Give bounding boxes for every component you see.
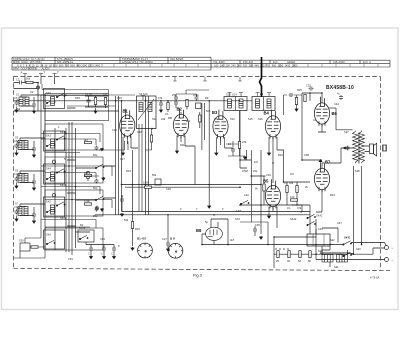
node aerial terminal T2	[53, 74, 57, 79]
svg-text:S22: S22	[330, 238, 335, 242]
wire long HT bus	[95, 212, 310, 215]
svg-text:5k: 5k	[255, 187, 258, 191]
svg-text:1M: 1M	[254, 160, 258, 164]
resistor left r3 cluster	[85, 203, 92, 205]
svg-text:SK8: SK8	[236, 209, 241, 213]
svg-text:C: C	[111, 252, 113, 256]
svg-text:50k: 50k	[124, 218, 129, 222]
wire can T4 top stubs	[256, 93, 272, 97]
svg-text:R24: R24	[330, 193, 335, 197]
svg-text:5p: 5p	[205, 220, 208, 224]
ground far-left row4	[15, 218, 18, 221]
wire r3 leads	[85, 96, 108, 110]
svg-text:25: 25	[276, 259, 279, 263]
wire main grid line	[30, 100, 252, 102]
svg-text:B7: B7	[325, 160, 331, 165]
wire B6 anode to B7	[329, 107, 336, 109]
node border stub a	[173, 77, 176, 81]
svg-text:22k: 22k	[242, 140, 247, 144]
node B2 top components	[174, 101, 178, 106]
svg-text:C63: C63	[100, 237, 105, 241]
capacitor C20	[159, 102, 163, 107]
resistor R32 on bus	[299, 251, 301, 258]
resistor R22	[291, 199, 298, 201]
transformer T5 output primary	[353, 131, 365, 164]
transformer T6 mains winding a	[322, 255, 333, 263]
svg-text:S30: S30	[19, 239, 24, 243]
wire row3 links	[20, 171, 116, 200]
svg-text:2k2: 2k2	[186, 119, 191, 123]
ground row3	[33, 187, 36, 190]
svg-text:49m BAND: 49m BAND	[170, 57, 183, 61]
ground B2 cathode	[176, 150, 179, 153]
svg-text:C33: C33	[266, 173, 271, 177]
svg-text:47k: 47k	[297, 206, 302, 210]
node small box S11	[196, 103, 202, 109]
wire AVC bus left	[14, 89, 120, 112]
wire arrow into transformer	[341, 148, 353, 163]
svg-text:50p: 50p	[206, 109, 211, 113]
node border stub b	[203, 77, 206, 81]
svg-text:80: 80	[308, 259, 311, 263]
capacitor C25	[120, 198, 124, 203]
node volume control box	[155, 179, 161, 185]
svg-text:4u: 4u	[337, 92, 340, 96]
svg-text:82p: 82p	[93, 153, 98, 157]
svg-text:C46: C46	[318, 227, 323, 231]
svg-text:R19: R19	[278, 153, 283, 157]
wire chassis dash-dot border left	[13, 77, 15, 269]
ground C35	[260, 236, 263, 239]
svg-text:B8: B8	[196, 228, 202, 233]
svg-text:B1–B7: B1–B7	[137, 237, 147, 241]
node wafer pivot row2	[52, 160, 55, 163]
capacitor far-left row4	[15, 210, 19, 215]
switch SK41 lower	[343, 252, 352, 256]
ground C20	[160, 109, 163, 112]
resistor R4	[104, 98, 106, 105]
wire B5 area verticals	[240, 111, 284, 235]
svg-text:B6: B6	[332, 111, 338, 116]
wire mid stubs	[167, 215, 169, 248]
wire bottom feed bus	[202, 219, 385, 268]
ground C61	[103, 256, 106, 259]
svg-text:∼: ∼	[391, 258, 394, 262]
svg-text:2: 2	[222, 207, 224, 211]
capacitor C7 row2	[32, 147, 36, 152]
svg-text:C38: C38	[304, 153, 309, 157]
ground left r3	[101, 208, 104, 211]
node power rectangle box	[307, 234, 330, 246]
svg-text:50k: 50k	[152, 173, 157, 177]
svg-text:C15: C15	[117, 96, 122, 100]
svg-text:C1: C1	[16, 78, 20, 82]
svg-text:S9 S10: S9 S10	[139, 92, 148, 96]
switch SK3b	[95, 196, 104, 200]
svg-text:R9: R9	[205, 96, 209, 100]
capacitor left r2 cluster	[95, 179, 99, 184]
tube B2	[173, 108, 188, 138]
socket diagram B8	[168, 243, 183, 258]
svg-text:50: 50	[298, 259, 301, 263]
svg-text:S3: S3	[15, 136, 19, 140]
capacitor C35	[253, 228, 257, 233]
ground C25	[121, 213, 124, 216]
node field coil connector	[383, 145, 387, 151]
svg-text:S6: S6	[17, 173, 21, 177]
tube B6	[314, 97, 329, 127]
svg-text:C: C	[101, 252, 103, 256]
svg-text:0.1: 0.1	[287, 206, 291, 210]
svg-text:S20: S20	[318, 249, 323, 253]
svg-text:SK5: SK5	[46, 200, 51, 204]
svg-text:SK2: SK2	[46, 91, 51, 95]
wire B2 pins	[177, 136, 195, 185]
switch SK4a box	[44, 197, 65, 217]
wire transformer down leads	[354, 166, 362, 254]
svg-text:∼: ∼	[391, 246, 394, 250]
wire AF double line	[122, 185, 262, 188]
svg-text:T: T	[44, 71, 46, 75]
svg-text:100p: 100p	[193, 93, 199, 97]
svg-text:C26: C26	[166, 187, 171, 191]
node aerial terminal T	[23, 74, 27, 79]
wire row2 links	[20, 138, 116, 168]
wire chassis dash-dot border top	[14, 76, 381, 78]
resistor R31 on bus	[288, 251, 290, 258]
svg-text:SK41: SK41	[344, 236, 351, 240]
resistor R3	[94, 98, 96, 105]
wire row4 links	[20, 204, 90, 232]
resistor R18	[296, 186, 298, 193]
resistor R7 row2	[87, 172, 89, 179]
node wafer pivot row3	[52, 193, 55, 196]
svg-text:4k7: 4k7	[230, 238, 235, 242]
ground left r2	[102, 177, 105, 180]
svg-text:S2: S2	[17, 107, 21, 111]
wire sk40 caps feed	[86, 242, 114, 256]
svg-text:R2: R2	[80, 223, 84, 227]
svg-text:S23: S23	[356, 247, 361, 251]
node band section outer box 3	[45, 157, 103, 183]
svg-text:S11: S11	[152, 117, 157, 121]
switch SK8	[240, 200, 249, 204]
wire tuning pointer	[260, 57, 262, 97]
capacitor C31	[339, 95, 343, 100]
wire B7 cathode chain	[292, 160, 323, 212]
resistor R30 on bus	[277, 251, 279, 258]
svg-text:C18: C18	[137, 130, 142, 134]
coil S3 block row2	[18, 141, 22, 150]
wire B6 top leads	[302, 93, 353, 160]
ground left r1	[101, 148, 104, 151]
wire mid bus lines	[116, 96, 149, 246]
svg-text:0.1 30k: 0.1 30k	[284, 181, 294, 185]
node band section outer box 5	[45, 228, 103, 250]
node bottom-left mini block	[20, 243, 30, 251]
resistor R16	[263, 184, 265, 191]
svg-text:R15: R15	[135, 227, 140, 231]
tube B3	[213, 110, 228, 140]
svg-text:SK4: SK4	[46, 167, 51, 171]
node header scale row ticks	[18, 64, 378, 67]
svg-text:S4: S4	[17, 140, 21, 144]
svg-text:C24: C24	[226, 142, 231, 146]
tube B4	[265, 110, 280, 140]
coil S7 block row4	[18, 207, 22, 216]
wire B7 anode	[322, 163, 341, 168]
svg-text:1: 1	[58, 125, 60, 129]
svg-text:25p: 25p	[93, 214, 98, 218]
capacitor far-left row2	[15, 144, 19, 149]
IF transformer can T2	[137, 96, 157, 129]
resistor B6 input	[295, 98, 297, 105]
svg-text:C5: C5	[14, 96, 18, 100]
svg-text:SK5: SK5	[75, 96, 80, 100]
svg-text:10k: 10k	[214, 117, 219, 121]
node border stub c	[238, 77, 241, 81]
switch wafer box1 second contact	[56, 93, 65, 97]
svg-text:150: 150	[290, 195, 295, 199]
resistor R17	[286, 186, 288, 193]
svg-text:SK42: SK42	[290, 217, 297, 221]
ground C27	[167, 248, 170, 251]
switch wafer box2 second contact	[56, 136, 65, 140]
ground far-left row1	[15, 109, 18, 112]
ground C62	[113, 256, 116, 259]
svg-text:C16: C16	[112, 128, 117, 132]
svg-text:4-79 SA: 4-79 SA	[370, 276, 380, 280]
ground R12	[208, 205, 211, 208]
resistor R12	[199, 115, 201, 122]
svg-text:25p: 25p	[253, 169, 258, 173]
capacitor B6 input	[289, 93, 294, 97]
capacitor C61	[102, 247, 106, 252]
ground row1	[33, 110, 36, 113]
svg-text:C17: C17	[120, 157, 125, 161]
wire B8 leads	[202, 219, 228, 245]
node band section outer box 4	[45, 190, 103, 216]
capacitor C27	[166, 242, 170, 247]
ground B3 cathode	[215, 152, 218, 155]
svg-text:SK4b: SK4b	[60, 216, 67, 220]
svg-text:B4: B4	[264, 111, 270, 116]
svg-text:3: 3	[180, 207, 182, 211]
svg-text:SK6: SK6	[46, 233, 51, 237]
capacitor left r1 cluster	[95, 146, 99, 151]
svg-text:BX458B-10: BX458B-10	[326, 85, 354, 91]
switch SK41 upper	[343, 241, 352, 245]
svg-text:R25: R25	[297, 88, 302, 92]
node band section outer box 2	[45, 124, 103, 150]
node band section outer box 1	[45, 94, 109, 121]
svg-text:SK1b: SK1b	[60, 130, 67, 134]
svg-text:S13: S13	[230, 117, 235, 121]
node T6 core lines	[320, 252, 350, 253]
svg-text:415–1620: 415–1620	[333, 60, 345, 64]
wire B5 aux links	[240, 205, 268, 245]
resistor R8	[150, 135, 152, 142]
svg-text:S1: S1	[16, 93, 20, 97]
capacitor C13 row4	[32, 213, 36, 218]
svg-text:0.5M: 0.5M	[242, 169, 248, 173]
svg-text:8: 8	[118, 244, 120, 248]
svg-text:A: A	[21, 71, 23, 75]
switch SK6 wafer box	[44, 230, 65, 249]
coil S1 block row1	[19, 97, 23, 106]
svg-text:SK42: SK42	[316, 214, 323, 218]
capacitor C40 at B7 anode	[346, 146, 350, 151]
ground row2	[33, 154, 36, 157]
ground under R3	[94, 110, 97, 113]
svg-text:S16: S16	[258, 117, 263, 121]
node aux dot	[267, 244, 269, 246]
switch SK42	[307, 214, 316, 218]
svg-text:MIDD. GOLF 187–578m: MIDD. GOLF 187–578m	[13, 60, 42, 64]
capacitor C4	[87, 99, 91, 104]
wire box1 feed	[42, 84, 109, 94]
resistor R33 on bus	[309, 251, 311, 258]
svg-text:50p: 50p	[93, 186, 98, 190]
node B3 B4 mid components	[231, 148, 235, 153]
svg-text:C44: C44	[334, 102, 339, 106]
speaker LS	[370, 143, 377, 156]
switch SK3a box	[44, 164, 65, 184]
node terminal above T2	[141, 96, 145, 101]
svg-text:C3: C3	[30, 90, 34, 94]
svg-text:S17: S17	[344, 130, 349, 134]
wire far-left stubs	[14, 100, 46, 258]
coil wafer box3 interior	[51, 172, 55, 181]
svg-text:LANGE GOLF 722–2000m: LANGE GOLF 722–2000m	[122, 60, 153, 64]
wire B5 pins	[269, 207, 277, 228]
svg-text:7: 7	[196, 207, 198, 211]
svg-text:R11: R11	[180, 143, 185, 147]
wire T6 leads	[322, 228, 348, 267]
resistor R15	[131, 222, 133, 229]
svg-text:C64: C64	[68, 257, 73, 261]
capacitor far-left row1	[15, 101, 19, 106]
node B2 right verticals	[202, 101, 209, 205]
svg-text:S5: S5	[15, 169, 19, 173]
svg-text:470k: 470k	[84, 199, 90, 203]
svg-text:C35: C35	[255, 223, 260, 227]
wire row1 links	[21, 95, 76, 110]
coil wafer box4 interior	[51, 205, 55, 214]
capacitor C11 row3	[95, 206, 99, 211]
switch SK1a box	[44, 89, 65, 109]
svg-text:4k7: 4k7	[84, 138, 89, 142]
capacitor C30	[309, 87, 314, 91]
ground row4	[33, 220, 36, 223]
svg-text:S13 S14: S13 S14	[226, 93, 237, 97]
resistor R14	[145, 186, 152, 188]
wire can T3 top stubs	[228, 93, 244, 97]
capacitor C1	[18, 81, 23, 85]
wire power verticals	[310, 205, 354, 255]
svg-text:1M: 1M	[290, 172, 294, 176]
capacitor C2 row1	[32, 103, 36, 108]
ground B4 cathode	[268, 152, 271, 155]
svg-text:R13: R13	[126, 169, 131, 173]
switch wafer box3 second contact	[56, 169, 65, 173]
resistor R1	[26, 81, 33, 83]
svg-text:2k: 2k	[305, 185, 308, 189]
tube B8 rectifier	[206, 227, 223, 240]
wire left bus lines	[66, 122, 76, 255]
svg-text:S8: S8	[17, 206, 21, 210]
svg-text:S18: S18	[355, 169, 360, 173]
svg-text:S7: S7	[15, 202, 19, 206]
node scattered value labels	[17, 88, 361, 269]
ground far-left row2	[15, 152, 18, 155]
svg-text:SK3: SK3	[46, 134, 51, 138]
node mains terminal upper	[385, 246, 389, 250]
resistor R10	[167, 103, 169, 110]
svg-text:C47: C47	[337, 221, 342, 225]
ground B6 input	[295, 108, 298, 111]
svg-text:1M: 1M	[84, 171, 88, 175]
wire transformer secondary to speaker	[365, 146, 370, 152]
node mains terminal lower	[385, 258, 389, 262]
ground R15	[131, 247, 134, 250]
switch SK2b	[95, 164, 104, 168]
switch SK40 box bottom	[78, 230, 94, 242]
svg-text:T: T	[57, 71, 59, 75]
wire chassis dash-dot border bottom	[14, 268, 391, 270]
capacitor C9 row3	[32, 180, 36, 185]
capacitor left r3 cluster	[95, 207, 99, 212]
wire left mesh verticals	[41, 95, 142, 230]
svg-text:S21: S21	[334, 265, 339, 269]
svg-text:B 8: B 8	[170, 237, 175, 241]
svg-text:SK3b: SK3b	[60, 183, 67, 187]
svg-text:C27: C27	[162, 237, 167, 241]
node top mid components	[174, 96, 178, 101]
wire chassis dash-dot border right	[380, 77, 382, 271]
svg-text:0.1: 0.1	[165, 112, 169, 116]
svg-text:56k: 56k	[26, 77, 31, 81]
wire B1 pin drops	[84, 141, 128, 176]
svg-text:B3: B3	[212, 110, 218, 115]
svg-text:kc/s m: kc/s m	[363, 60, 371, 64]
capacitor C60	[89, 247, 93, 252]
tube B5	[265, 179, 280, 209]
wire left column verticals	[38, 95, 55, 250]
resistor R20	[304, 95, 306, 102]
IF transformer can T4	[252, 97, 275, 111]
transformer T6 mains winding b	[337, 255, 348, 263]
tube B1	[120, 109, 135, 139]
ground B5 cathode	[268, 215, 271, 218]
ground C60	[90, 256, 93, 259]
capacitor C62	[112, 247, 116, 252]
wire mains wires	[351, 243, 385, 255]
coil wafer box1 interior	[51, 97, 55, 106]
svg-text:30: 30	[287, 259, 290, 263]
svg-text:0.1: 0.1	[313, 118, 317, 122]
switch wafer box4 second contact	[56, 202, 65, 206]
wire B3 pins	[216, 137, 233, 152]
node aerial terminal T1	[39, 74, 43, 79]
wire B4 pins	[269, 137, 284, 183]
node header table rules	[12, 57, 390, 70]
capacitor far-left row3	[15, 177, 19, 182]
node A junction	[37, 86, 40, 89]
socket diagram B1-B7	[138, 243, 153, 258]
switch SK2a box	[44, 131, 65, 151]
svg-text:SK3: SK3	[235, 217, 240, 221]
